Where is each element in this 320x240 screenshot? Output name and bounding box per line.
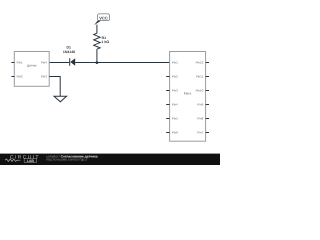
- wire VCC to R1 top: [96, 25, 98, 34]
- svg-text:LAB: LAB: [27, 159, 34, 163]
- svg-text:VCC: VCC: [99, 16, 108, 21]
- svg-text:http://circuitlab.com/c/x7gbz7: http://circuitlab.com/c/x7gbz7: [47, 158, 88, 162]
- ground: [54, 96, 67, 102]
- svg-text:Pin2: Pin2: [172, 75, 178, 79]
- svg-text:Pin4: Pin4: [41, 61, 47, 65]
- footer title text: [47, 155, 98, 159]
- pin stub Pin5 right block: [166, 118, 169, 120]
- pin stub Pin9 right block: [206, 104, 209, 106]
- pin stub Pin2 left block: [11, 76, 14, 78]
- pin stub Pin12 right block: [206, 62, 209, 64]
- pin stub Pin6 right block: [166, 132, 169, 134]
- pin stub Pin8 right block: [206, 118, 209, 120]
- pin stub Pin2 right block: [166, 76, 169, 78]
- svg-text:Pin3: Pin3: [41, 75, 47, 79]
- wire R1 bottom to node: [96, 49, 98, 63]
- svg-text:1N4148: 1N4148: [63, 51, 75, 55]
- IC left block (sensor): [14, 52, 49, 87]
- wire left block Pin4 to diode cathode: [49, 62, 69, 64]
- pin stub Pin4 right block: [166, 104, 169, 106]
- svg-text:1 kΩ: 1 kΩ: [101, 40, 109, 44]
- IC right block (micro): [170, 52, 206, 142]
- pin stub Pin11 right block: [206, 76, 209, 78]
- resistor R1: [94, 33, 110, 49]
- svg-text:Pin6: Pin6: [172, 131, 178, 135]
- svg-text:Мега: Мега: [184, 92, 192, 96]
- svg-text:Pin2: Pin2: [17, 75, 23, 79]
- svg-text:R1: R1: [102, 36, 107, 40]
- svg-text:Pin1: Pin1: [172, 61, 178, 65]
- svg-text:Pin12: Pin12: [196, 61, 204, 65]
- pin stub Pin10 right block: [206, 90, 209, 92]
- svg-text:Pin1: Pin1: [17, 61, 23, 65]
- diode D1 1N4148: [63, 46, 75, 66]
- node junction dot: [96, 61, 99, 64]
- svg-text:Pin8: Pin8: [197, 117, 203, 121]
- pin stub Pin3 right block: [166, 90, 169, 92]
- svg-text:Pin10: Pin10: [196, 89, 204, 93]
- footer url text: [47, 158, 88, 162]
- wire diode anode to right block Pin1: [75, 62, 169, 64]
- CircuitLab logo: [5, 154, 40, 163]
- pin stub Pin7 right block: [206, 132, 209, 134]
- svg-text:Pin5: Pin5: [172, 117, 178, 121]
- footer bar: [0, 154, 220, 165]
- svg-text:Pin4: Pin4: [172, 103, 178, 107]
- pin stub Pin1 left block: [11, 62, 14, 64]
- svg-text:Pin9: Pin9: [197, 103, 203, 107]
- svg-text:D1: D1: [66, 46, 71, 50]
- power flag VCC: [94, 14, 109, 25]
- svg-text:Pin3: Pin3: [172, 89, 178, 93]
- wire Pin3 to ground: [49, 77, 60, 97]
- svg-text:CIRCUIT: CIRCUIT: [10, 154, 40, 160]
- svg-text:Pin7: Pin7: [197, 131, 203, 135]
- svg-text:Датчик: Датчик: [27, 64, 37, 68]
- svg-text:Pin11: Pin11: [196, 75, 204, 79]
